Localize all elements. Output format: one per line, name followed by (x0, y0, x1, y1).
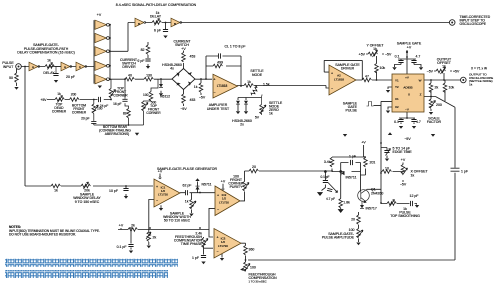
svg-text:−: − (217, 250, 219, 254)
svg-text:200: 200 (436, 103, 442, 107)
svg-text:499: 499 (217, 61, 223, 65)
svg-text:X: X (408, 92, 410, 96)
svg-text:8.4-nSEC SIGNAL-PATH-DELAY COM: 8.4-nSEC SIGNAL-PATH-DELAY COMPENSATION (116, 3, 197, 7)
svg-text:5V: 5V (255, 116, 260, 120)
svg-text:−V: −V (405, 108, 409, 112)
svg-text:INPUT: INPUT (3, 65, 14, 69)
svg-text:LT1720: LT1720 (218, 244, 228, 248)
svg-text:CL 1 TO 8 pF: CL 1 TO 8 pF (225, 45, 246, 49)
svg-text:+V: +V (221, 180, 226, 184)
svg-text:1k: 1k (373, 47, 377, 51)
svg-text:1k: 1k (185, 200, 189, 204)
svg-text:Y1: Y1 (395, 79, 399, 83)
svg-text:20: 20 (252, 165, 256, 169)
svg-text:SAMPLE-GATE-PULSE GENERATOR: SAMPLE-GATE-PULSE GENERATOR (157, 167, 218, 171)
svg-text:10k: 10k (449, 86, 455, 90)
svg-text:−: − (331, 87, 333, 91)
svg-text:4.7: 4.7 (416, 55, 421, 59)
svg-text:PURITY: PURITY (230, 185, 244, 189)
svg-text:IN5717: IN5717 (366, 207, 377, 211)
svg-text:+: + (331, 72, 333, 76)
svg-text:20 pF: 20 pF (81, 117, 89, 121)
svg-text:50 TO 110 nSEC: 50 TO 110 nSEC (164, 219, 191, 223)
svg-text:LT1818: LT1818 (334, 77, 344, 81)
svg-text:10 pF: 10 pF (109, 189, 118, 193)
svg-text:10k: 10k (380, 66, 386, 70)
svg-text:40: 40 (128, 74, 132, 78)
svg-text:1k: 1k (469, 82, 473, 86)
svg-text:Y2: Y2 (395, 85, 399, 89)
svg-text:200: 200 (71, 93, 77, 97)
svg-text:CORNER: CORNER (52, 109, 67, 113)
svg-text:OSCILLOSCOPE: OSCILLOSCOPE (460, 22, 487, 26)
svg-text:UNDER TEST: UNDER TEST (207, 107, 230, 111)
svg-text:360: 360 (249, 248, 255, 252)
svg-text:2x: 2x (240, 123, 244, 127)
svg-text:N5112: N5112 (160, 95, 170, 99)
svg-text:1 pF: 1 pF (192, 256, 199, 260)
svg-text:2k: 2k (131, 224, 135, 228)
svg-text:FACTOR: FACTOR (427, 120, 442, 124)
svg-text:47: 47 (365, 75, 369, 79)
svg-text:−5V: −5V (180, 107, 187, 111)
svg-text:−: − (156, 199, 158, 203)
svg-text:LT1720: LT1720 (158, 193, 168, 197)
svg-text:−5V: −5V (404, 137, 411, 141)
svg-text:+: + (217, 194, 219, 198)
svg-text:DELAY: DELAY (43, 71, 55, 75)
svg-text:DELAY COMPENSATION (16 nSEC): DELAY COMPENSATION (16 nSEC) (17, 51, 75, 55)
svg-text:+V: +V (361, 141, 366, 145)
svg-text:0.1 pF: 0.1 pF (117, 245, 127, 249)
svg-text:LT1720: LT1720 (219, 201, 229, 205)
svg-text:+V: +V (97, 13, 102, 17)
svg-text:1k: 1k (57, 92, 61, 96)
svg-text:IN5711: IN5711 (345, 176, 356, 180)
svg-text:1.5k: 1.5k (263, 83, 270, 87)
svg-text:1k: 1k (194, 85, 198, 89)
svg-text:−5V: −5V (199, 96, 206, 100)
svg-text:+5V: +5V (359, 53, 366, 57)
svg-text:1k: 1k (269, 112, 273, 116)
svg-text:−5V: −5V (385, 53, 392, 57)
svg-text:−: − (217, 208, 219, 212)
svg-text:W: W (419, 79, 422, 83)
svg-text:6 pF: 6 pF (154, 29, 161, 33)
svg-text:12 pF: 12 pF (410, 194, 419, 198)
svg-text:LT1818: LT1818 (217, 84, 228, 88)
svg-text:50: 50 (9, 76, 13, 80)
svg-text:100: 100 (250, 266, 256, 270)
svg-text:+5V: +5V (41, 98, 48, 102)
svg-text:1 TO 30 nSEC: 1 TO 30 nSEC (249, 280, 267, 284)
svg-text:2k: 2k (435, 86, 439, 90)
svg-text:DO NOT USE BOARD-MOUNTED RESIS: DO NOT USE BOARD-MOUNTED RESISTOR. (9, 232, 76, 236)
svg-text:ABERRATIONS): ABERRATIONS) (105, 132, 130, 136)
svg-text:0.1: 0.1 (394, 120, 399, 124)
svg-text:16 pF: 16 pF (113, 102, 121, 106)
svg-text:DELAY: DELAY (150, 15, 162, 19)
svg-text:+V: +V (405, 76, 409, 80)
svg-text:+: + (214, 78, 216, 82)
svg-text:A: A (32, 65, 34, 69)
svg-text:N5711: N5711 (202, 183, 212, 187)
svg-text:B: B (174, 22, 176, 26)
svg-text:20: 20 (351, 218, 355, 222)
svg-text:DRIVER: DRIVER (122, 65, 136, 69)
svg-text:0.1: 0.1 (395, 55, 400, 59)
svg-text:201: 201 (370, 161, 376, 165)
svg-text:+V: +V (407, 46, 412, 50)
svg-text:1k: 1k (411, 174, 415, 178)
svg-text:10: 10 (385, 167, 389, 171)
svg-text:1k: 1k (47, 59, 51, 63)
svg-text:+5V: +5V (453, 70, 460, 74)
svg-text:20 pF: 20 pF (66, 75, 75, 79)
svg-text:100: 100 (97, 107, 103, 111)
svg-text:+: + (217, 236, 219, 240)
svg-text:DRIVER: DRIVER (341, 67, 355, 71)
svg-text:453: 453 (190, 55, 196, 59)
svg-text:NODE: NODE (252, 73, 263, 77)
svg-text:2 pF: 2 pF (137, 59, 144, 63)
svg-text:X = Y1 x W: X = Y1 x W (471, 67, 487, 71)
svg-text:A: A (64, 65, 66, 69)
svg-text:1k: 1k (54, 189, 58, 193)
svg-text:PULSE: PULSE (346, 109, 358, 113)
svg-text:0.1 pF: 0.1 pF (320, 175, 329, 179)
svg-text:1k: 1k (247, 80, 251, 84)
svg-text:2N4260: 2N4260 (371, 192, 383, 196)
svg-text:1k: 1k (442, 65, 446, 69)
svg-text:130: 130 (146, 74, 152, 78)
svg-text:4x: 4x (170, 67, 174, 71)
svg-text:PULSE AMPLITUDE: PULSE AMPLITUDE (322, 235, 355, 239)
svg-text:+V: +V (158, 170, 163, 174)
svg-text:3.4k: 3.4k (324, 160, 331, 164)
svg-text:+V: +V (119, 224, 124, 228)
svg-text:1 pF: 1 pF (461, 170, 468, 174)
svg-text:X2: X2 (395, 105, 399, 109)
svg-text:EDGE TIME: EDGE TIME (393, 150, 413, 154)
svg-text:+: + (156, 185, 158, 189)
svg-text:TOP SMOOTHING: TOP SMOOTHING (390, 214, 420, 218)
svg-text:4.7 pF: 4.7 pF (326, 197, 335, 201)
svg-text:+V: +V (181, 47, 186, 51)
svg-text:X1: X1 (395, 97, 399, 101)
svg-text:82: 82 (123, 112, 127, 116)
svg-text:62 pF: 62 pF (183, 184, 192, 188)
svg-text:(SETTLE NODE): (SETTLE NODE) (469, 79, 493, 83)
svg-text:CORNER: CORNER (72, 111, 87, 115)
svg-text:Z: Z (420, 92, 422, 96)
svg-text:−: − (214, 91, 216, 95)
svg-text:453: 453 (190, 98, 196, 102)
svg-text:2k: 2k (153, 236, 157, 240)
svg-text:1 pF: 1 pF (349, 155, 356, 159)
svg-text:82: 82 (141, 48, 145, 52)
svg-text:+V: +V (401, 158, 406, 162)
svg-text:B: B (138, 22, 140, 26)
svg-text:4.7: 4.7 (416, 120, 421, 124)
svg-text:9 TO 150 nSEC: 9 TO 150 nSEC (75, 200, 100, 204)
svg-text:AD835: AD835 (403, 86, 413, 90)
svg-text:CORNER: CORNER (146, 111, 161, 115)
svg-text:1.8k: 1.8k (343, 201, 350, 205)
svg-text:−5V: −5V (427, 70, 434, 74)
svg-text:TIME PHASE: TIME PHASE (181, 242, 203, 246)
svg-text:−5V: −5V (400, 183, 407, 187)
svg-text:100: 100 (143, 93, 149, 97)
svg-text:CORNER: CORNER (113, 94, 128, 98)
